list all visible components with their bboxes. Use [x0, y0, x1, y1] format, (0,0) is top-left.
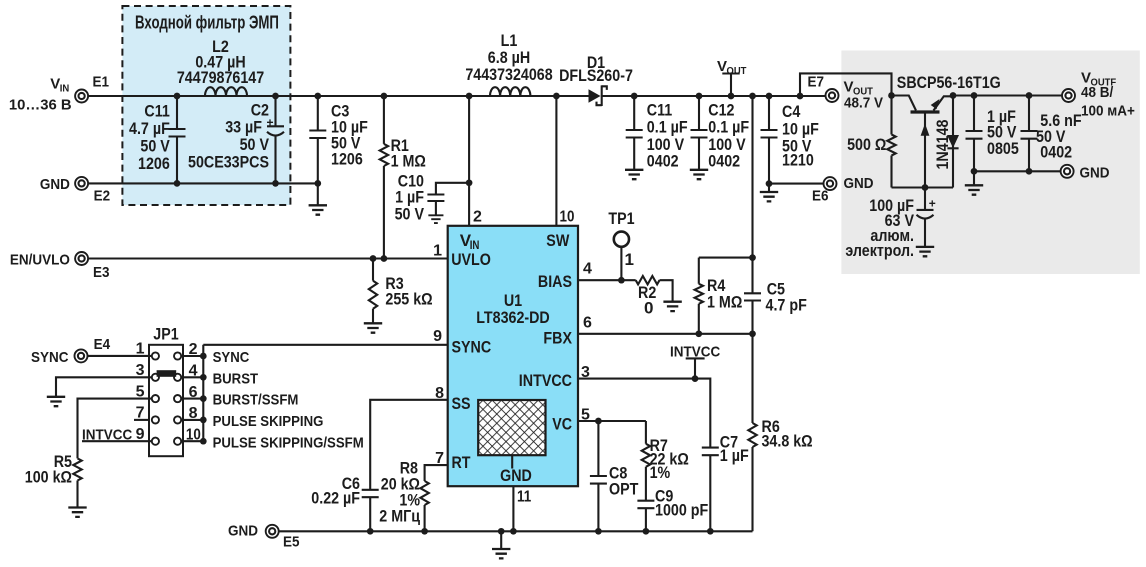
- svg-text:2: 2: [473, 209, 482, 226]
- wire: GND pin 11: [512, 486, 514, 531]
- JP1 pin 7: [152, 416, 159, 423]
- wire: ground bus: [279, 530, 753, 532]
- terminal E3 EN/UVLO: [75, 252, 88, 265]
- svg-text:OUT: OUT: [727, 65, 747, 77]
- capacitor C11 input: [176, 96, 178, 129]
- capacitor C4: [768, 96, 770, 130]
- svg-text:SYNC: SYNC: [213, 349, 250, 366]
- ground under C3: [309, 205, 327, 214]
- wire: VIN pin 2: [468, 96, 470, 226]
- svg-text:FBX: FBX: [543, 329, 572, 348]
- capacitor 100uF electrolytic: [924, 188, 926, 210]
- svg-text:10…36 В: 10…36 В: [9, 97, 72, 114]
- ground in gray box: [973, 171, 975, 185]
- wire: SW pin 10: [555, 96, 557, 226]
- svg-text:0.1 µF: 0.1 µF: [708, 117, 749, 136]
- wire: rail after D1 to E7 node: [602, 95, 800, 97]
- svg-text:BIAS: BIAS: [538, 272, 572, 291]
- svg-text:1210: 1210: [782, 151, 814, 170]
- svg-text:0805: 0805: [987, 139, 1019, 158]
- svg-text:1N4148: 1N4148: [933, 120, 952, 170]
- terminal E1 VIN: [75, 90, 88, 103]
- ground under R5: [68, 508, 86, 517]
- wire: INTVCC to JP1 pin 9: [82, 440, 152, 442]
- svg-text:1: 1: [625, 250, 634, 269]
- wire: output gnd row: [974, 170, 1061, 172]
- pad stem to GND: [511, 455, 513, 468]
- test point TP1: [614, 232, 629, 247]
- svg-text:0402: 0402: [647, 152, 679, 171]
- capacitor C6: [362, 490, 379, 497]
- svg-text:UVLO: UVLO: [451, 250, 491, 269]
- svg-text:E1: E1: [93, 74, 110, 91]
- wire: EN/UVLO row: [88, 257, 448, 259]
- svg-text:GND: GND: [1080, 165, 1110, 182]
- svg-text:255 kΩ: 255 kΩ: [385, 289, 432, 308]
- diode D1 Schottky: [589, 89, 601, 103]
- ground under C12: [690, 170, 708, 179]
- svg-text:10: 10: [560, 209, 575, 226]
- svg-text:SW: SW: [546, 231, 570, 250]
- wire: JP1 pin 6 to common: [181, 398, 203, 400]
- ground at JP1 pin 3: [47, 397, 65, 406]
- terminal E7 VOUT: [797, 93, 804, 100]
- wire: GND return row: [88, 182, 318, 184]
- JP1 pin 7 stub: [134, 419, 148, 421]
- svg-text:SBCP56-16T1G: SBCP56-16T1G: [897, 73, 1001, 92]
- ground under R3: [364, 323, 382, 332]
- svg-text:100 kΩ: 100 kΩ: [25, 468, 72, 487]
- capacitor C11 output: [633, 96, 635, 130]
- inductor L2: [205, 87, 247, 96]
- svg-text:48.7 V: 48.7 V: [844, 95, 883, 112]
- capacitor C10: [436, 183, 469, 195]
- capacitor 1uF 0805: [973, 96, 975, 132]
- wire: RT pin 7 to R8: [425, 465, 448, 481]
- transistor Q1 SBCP56: [892, 96, 917, 111]
- svg-text:1 MΩ: 1 MΩ: [391, 152, 426, 171]
- svg-text:1206: 1206: [331, 149, 363, 168]
- svg-text:0.22 µF: 0.22 µF: [311, 489, 360, 508]
- svg-text:0.1 µF: 0.1 µF: [647, 117, 688, 136]
- capacitor C9: [637, 501, 654, 509]
- svg-text:TP1: TP1: [608, 209, 634, 228]
- svg-text:4.7 µF: 4.7 µF: [129, 119, 170, 138]
- wire: emitter rail: [953, 94, 1062, 96]
- svg-text:INTVCC: INTVCC: [519, 371, 572, 390]
- svg-text:V: V: [717, 58, 727, 75]
- wire: JP1 pin 2 to common: [181, 355, 203, 357]
- JP1 pin 1: [152, 352, 159, 359]
- wire: VC pin 5: [578, 420, 646, 422]
- svg-text:33 µF: 33 µF: [225, 117, 262, 136]
- wire: JP1 common column: [202, 345, 204, 441]
- wire: JP1 pin 3 to ground: [56, 377, 152, 397]
- svg-text:PULSE SKIPPING/SSFM: PULSE SKIPPING/SSFM: [213, 434, 364, 451]
- svg-text:50CE33PCS: 50CE33PCS: [188, 153, 269, 172]
- svg-text:500 Ω: 500 Ω: [847, 135, 886, 154]
- svg-text:IN: IN: [60, 83, 70, 95]
- terminal E4 SYNC: [75, 349, 88, 362]
- ground under C4: [768, 184, 770, 192]
- resistor 500 ohm: [890, 96, 892, 135]
- svg-text:74479876147: 74479876147: [177, 68, 264, 87]
- wire: BIAS pin 4: [578, 279, 636, 281]
- svg-text:C4: C4: [782, 102, 801, 121]
- terminal E2 GND: [75, 177, 88, 190]
- svg-text:OPT: OPT: [609, 480, 639, 499]
- resistor R7: [645, 421, 647, 444]
- capacitor C2 polarized: [274, 96, 276, 126]
- JP1 pin 4: [174, 374, 181, 381]
- op IC U1 LT8362-DD: [448, 226, 578, 486]
- svg-text:SYNC: SYNC: [31, 349, 69, 366]
- svg-text:34.8 kΩ: 34.8 kΩ: [762, 432, 813, 451]
- svg-text:DFLS260-7: DFLS260-7: [559, 66, 633, 85]
- svg-text:GND: GND: [228, 523, 258, 540]
- svg-text:2 МГц: 2 МГц: [379, 507, 420, 526]
- svg-text:1 µF: 1 µF: [720, 446, 749, 465]
- wire: SS pin 8 to C6: [370, 400, 448, 490]
- U1 exposed pad: [478, 400, 545, 455]
- JP1 pin 9: [152, 438, 159, 445]
- VOUT net label: [730, 74, 732, 97]
- svg-text:74437324068: 74437324068: [465, 65, 552, 84]
- svg-text:EN/UVLO: EN/UVLO: [10, 252, 70, 269]
- wire: JP1 common to SYNC pin 9: [203, 344, 447, 346]
- svg-text:GND: GND: [844, 175, 874, 192]
- svg-text:GND: GND: [40, 176, 70, 193]
- wire: JP1 pin 8 to common: [181, 419, 203, 421]
- svg-text:6: 6: [189, 384, 198, 401]
- ground under C11: [625, 170, 643, 179]
- capacitor C8: [597, 421, 599, 476]
- resistor R1: [383, 96, 385, 144]
- svg-text:LT8362-DD: LT8362-DD: [476, 308, 550, 327]
- wire: JP1 pin 10 to common: [181, 440, 203, 442]
- EMI input filter box: [122, 6, 290, 205]
- svg-text:8: 8: [189, 405, 198, 422]
- JP1 shunt jumper on pins 3-4: [157, 370, 177, 377]
- resistor R8: [420, 481, 428, 505]
- svg-text:50 V: 50 V: [395, 205, 425, 224]
- svg-text:0: 0: [644, 299, 653, 318]
- JP1 pin 2: [174, 352, 181, 359]
- svg-text:48 В/: 48 В/: [1081, 84, 1114, 101]
- svg-text:SS: SS: [452, 394, 471, 413]
- JP1 pin 10: [174, 438, 181, 445]
- svg-text:2: 2: [189, 341, 198, 358]
- svg-text:GND: GND: [500, 466, 532, 485]
- svg-text:электрол.: электрол.: [845, 241, 914, 260]
- Q1 base lead with arrow: [924, 114, 926, 188]
- wire: VOUT rail to R4/C5: [751, 96, 753, 258]
- JP1 pin 5: [152, 395, 159, 402]
- JP1 pin 8: [174, 416, 181, 423]
- svg-text:E2: E2: [94, 188, 111, 205]
- wire: VIN rail: [88, 95, 588, 97]
- wire: bypass over E7 into gray box: [800, 73, 892, 96]
- svg-text:1%: 1%: [650, 463, 671, 482]
- resistor R5: [73, 458, 81, 480]
- svg-text:C11: C11: [144, 102, 169, 121]
- svg-text:4: 4: [583, 261, 592, 278]
- capacitor 5.6nF 0402: [1028, 96, 1030, 132]
- wire: FBX pin 6: [578, 333, 753, 335]
- svg-text:6: 6: [583, 315, 592, 332]
- JP1 pin 6: [174, 395, 181, 402]
- wire: INTVCC pin 3 to C7: [578, 379, 710, 448]
- capacitor C3: [317, 96, 319, 131]
- output filter gray box: [841, 51, 1139, 275]
- svg-text:+: +: [929, 196, 936, 210]
- capacitor C7: [702, 448, 719, 456]
- resistor R4: [698, 258, 700, 284]
- connector JP1: [149, 345, 183, 456]
- svg-text:BURST: BURST: [213, 370, 259, 387]
- svg-text:E5: E5: [283, 534, 300, 551]
- svg-text:V: V: [844, 79, 854, 96]
- ground under R2: [663, 302, 681, 311]
- inductor L1: [490, 87, 530, 96]
- wire: E4 to JP1 pin 1: [88, 355, 152, 357]
- diode 1N4148: [952, 96, 954, 188]
- svg-text:0402: 0402: [1040, 142, 1072, 161]
- wire: JP1 pin 5 to R5: [78, 399, 152, 459]
- svg-text:JP1: JP1: [153, 325, 178, 344]
- terminal VOUTF: [1062, 89, 1075, 102]
- ground under C10: [428, 215, 443, 223]
- svg-text:PULSE SKIPPING: PULSE SKIPPING: [213, 413, 324, 430]
- svg-text:SYNC: SYNC: [452, 338, 492, 357]
- svg-text:1: 1: [433, 243, 442, 260]
- ground on bus: [500, 531, 502, 549]
- capacitor C12: [698, 96, 700, 130]
- wire: base node bottom: [892, 186, 954, 188]
- terminal E6 GND: [824, 177, 837, 190]
- svg-text:4.7 pF: 4.7 pF: [766, 296, 807, 315]
- capacitor C5: [751, 258, 753, 294]
- wire: C4 to E6: [769, 183, 824, 185]
- svg-text:1206: 1206: [138, 154, 170, 173]
- svg-text:E6: E6: [812, 188, 829, 205]
- svg-text:E4: E4: [94, 336, 111, 353]
- svg-text:+: +: [267, 116, 274, 130]
- svg-text:11: 11: [517, 489, 531, 506]
- wire: JP1 pin 4 to common: [181, 376, 203, 378]
- svg-text:50 V: 50 V: [240, 135, 270, 154]
- svg-text:9: 9: [433, 328, 442, 345]
- svg-text:Входной фильтр ЭМП: Входной фильтр ЭМП: [135, 13, 279, 33]
- svg-text:4: 4: [189, 363, 198, 380]
- svg-text:0402: 0402: [708, 152, 740, 171]
- terminal GND right: [1061, 165, 1074, 178]
- wire: R4/C5 top tie: [699, 257, 753, 259]
- resistor R3: [372, 259, 374, 281]
- ground under 100uF: [916, 247, 934, 256]
- svg-text:INTVCC: INTVCC: [82, 427, 132, 444]
- svg-text:E3: E3: [93, 264, 110, 281]
- resistor R6: [751, 334, 753, 423]
- svg-text:100 мА+: 100 мА+: [1081, 103, 1135, 120]
- svg-text:10: 10: [186, 426, 201, 443]
- svg-text:BURST/SSFM: BURST/SSFM: [213, 392, 299, 409]
- terminal E5 GND: [266, 525, 279, 538]
- svg-text:RT: RT: [452, 453, 472, 472]
- svg-text:1000 pF: 1000 pF: [655, 501, 708, 520]
- svg-text:E7: E7: [808, 74, 825, 91]
- svg-text:1 MΩ: 1 MΩ: [707, 293, 742, 312]
- svg-text:VC: VC: [552, 415, 572, 434]
- resistor R2: [636, 276, 660, 284]
- JP1 pin 3: [152, 374, 159, 381]
- svg-text:50 V: 50 V: [140, 137, 170, 156]
